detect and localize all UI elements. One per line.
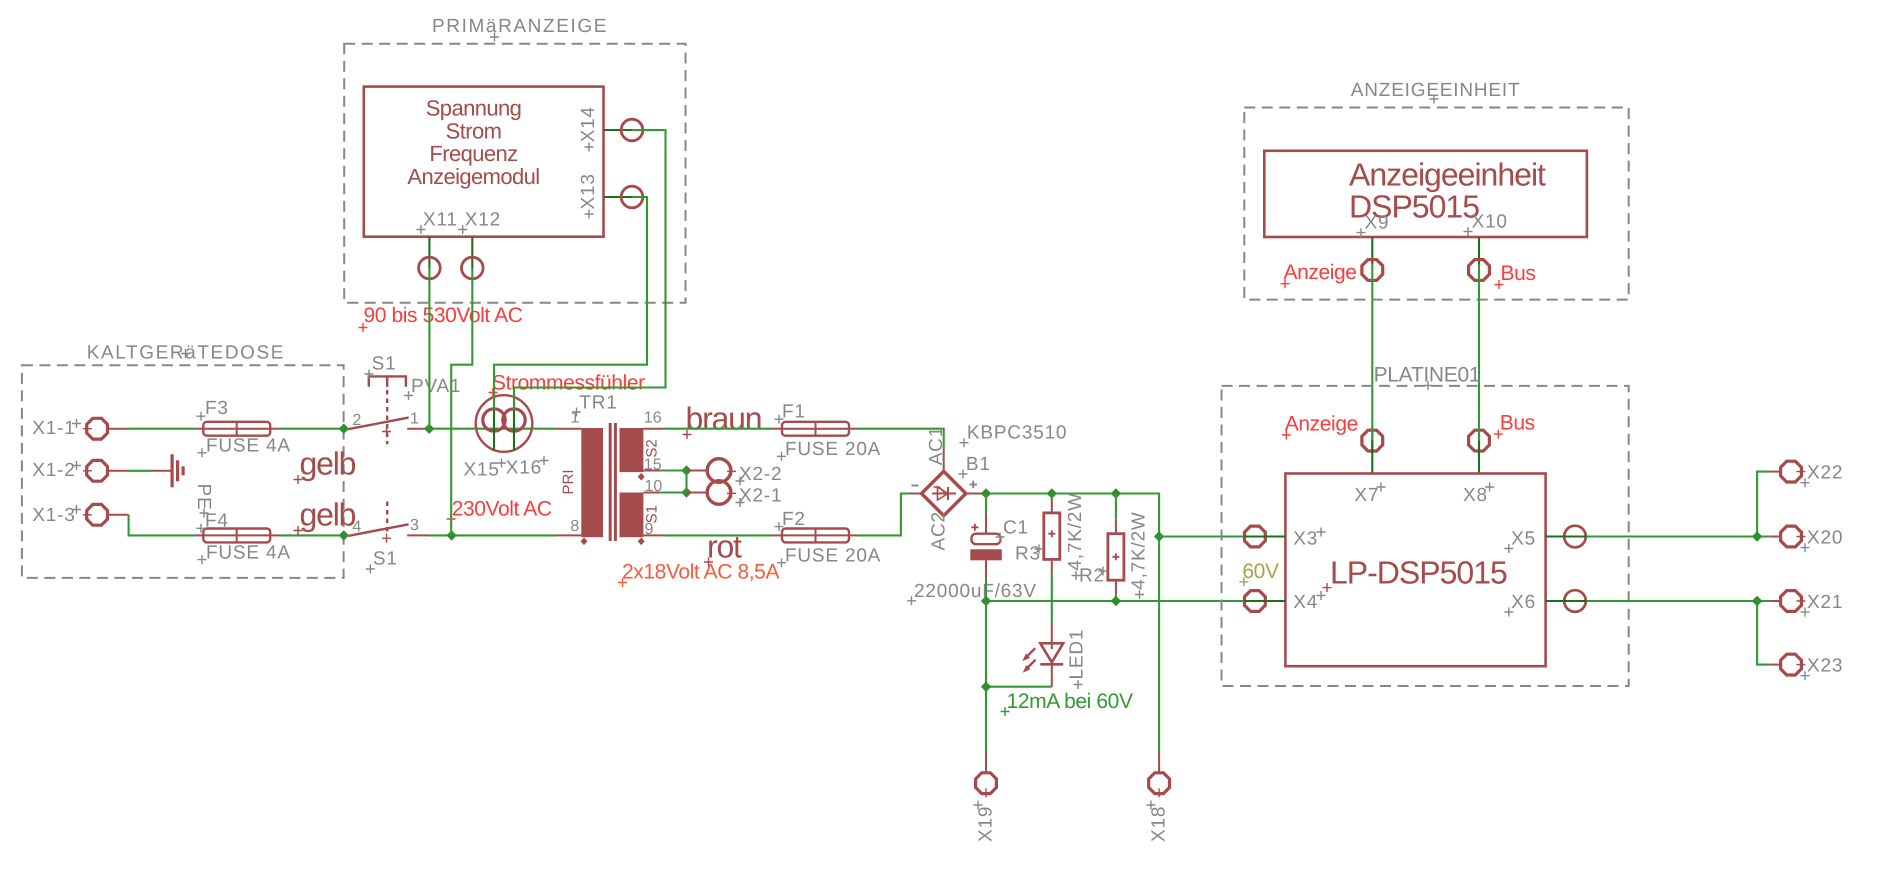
svg-text:F2: F2: [782, 509, 806, 530]
svg-text:X21: X21: [1807, 592, 1843, 613]
pad X13: [621, 186, 643, 208]
connector X1-1: [32, 418, 127, 439]
junction X19 node: [981, 682, 991, 692]
svg-text:braun: braun: [686, 401, 762, 437]
label Strommessfuehler: [489, 372, 646, 398]
pad X11: [419, 257, 441, 279]
net label rot: [704, 529, 742, 567]
pad X12: [462, 257, 484, 279]
switch S1 lower pole: [348, 502, 419, 574]
svg-text:PVA1: PVA1: [411, 376, 461, 397]
module PVA1 display box: [364, 87, 632, 268]
label PVA1: [404, 376, 461, 400]
wire R2 to gnd rail: [1115, 595, 1117, 601]
frame PRIMAERANZEIGE: [344, 16, 685, 303]
junction B1 plus: [981, 488, 991, 498]
svg-text:Anzeigemodul: Anzeigemodul: [407, 164, 539, 189]
pad X14: [621, 119, 643, 141]
connector X2-1: [707, 481, 782, 507]
svg-text:X4: X4: [1293, 592, 1318, 613]
svg-text:3: 3: [410, 517, 419, 534]
pad X7: [1362, 428, 1383, 453]
net label Anzeige upper: [1281, 261, 1357, 288]
wire X13 to X15: [494, 197, 647, 410]
svg-text:60V: 60V: [1242, 560, 1279, 583]
wire S1-3 to TR1 pin8: [407, 534, 556, 536]
wire X11 down: [428, 268, 430, 429]
svg-text:X3: X3: [1293, 529, 1318, 550]
junction X2-1 node: [681, 487, 691, 497]
svg-text:X1-1: X1-1: [32, 418, 75, 439]
junction node 3: [446, 530, 456, 540]
svg-text:X1-2: X1-2: [32, 460, 75, 481]
wire X12 down: [451, 268, 472, 535]
svg-text:AC2: AC2: [929, 511, 950, 550]
pad X10: [1469, 260, 1490, 281]
svg-text:S1: S1: [373, 549, 398, 570]
junction X18/X3 node: [1154, 531, 1164, 541]
wire TR1-15 to X2-2: [661, 471, 708, 493]
connector X23: [1781, 654, 1844, 680]
resistor R2: [1079, 494, 1150, 600]
net label Bus lower: [1494, 412, 1535, 439]
svg-text:Frequenz: Frequenz: [429, 141, 517, 166]
svg-text:PRIMäRANZEIGE: PRIMäRANZEIGE: [432, 16, 608, 37]
wire X5 to X20/X22: [1586, 472, 1780, 537]
svg-text:X16: X16: [506, 458, 542, 479]
net label 230Volt AC: [447, 497, 552, 523]
junction R2 gnd: [1111, 596, 1121, 606]
svg-text:Anzeige: Anzeige: [1284, 261, 1357, 284]
svg-text:S2: S2: [643, 439, 660, 457]
svg-text:gelb: gelb: [300, 497, 356, 533]
wire C1 to gnd rail: [985, 579, 987, 601]
svg-text:F4: F4: [205, 510, 229, 531]
svg-text:gelb: gelb: [300, 446, 356, 482]
connector X1-3: [32, 504, 128, 526]
svg-text:PRI: PRI: [560, 469, 577, 494]
module Anzeigeeinheit DSP5015: [1264, 151, 1587, 264]
svg-text:F3: F3: [205, 398, 229, 419]
net label gelb: [294, 497, 356, 536]
IC LP-DSP5015: [1285, 474, 1545, 667]
svg-text:10: 10: [645, 478, 663, 495]
connector X21: [1781, 591, 1844, 617]
junction R2 top: [1111, 488, 1121, 498]
ground PE: [151, 454, 214, 517]
wire LED1 to gnd/X19: [986, 601, 1052, 772]
frame ANZEIGEEINHEIT: [1244, 80, 1628, 300]
net label braun: [683, 401, 762, 440]
svg-text:FUSE 4A: FUSE 4A: [206, 436, 291, 457]
wire X14 to X16: [514, 130, 666, 410]
svg-text:X8: X8: [1463, 485, 1488, 506]
LED LED1: [1022, 622, 1087, 689]
svg-text:KBPC3510: KBPC3510: [967, 423, 1067, 444]
svg-text:X5: X5: [1511, 529, 1536, 550]
svg-text:Strom: Strom: [446, 118, 502, 143]
svg-text:FUSE 4A: FUSE 4A: [206, 542, 291, 563]
net label gelb: [294, 446, 356, 485]
wire S1-1 to TR1 pin1: [407, 428, 556, 430]
svg-text:90 bis 530Volt AC: 90 bis 530Volt AC: [364, 304, 523, 327]
resistor R3: [1015, 492, 1086, 580]
svg-text:B1: B1: [966, 454, 991, 475]
wire TR1-10 to X2-1: [661, 491, 708, 493]
pad X6: [1546, 590, 1587, 612]
wire TR1-16 to F1: [664, 428, 772, 430]
junction node 2: [339, 424, 349, 434]
labels X15 X16: [464, 456, 549, 481]
wire X1-1 to F3: [128, 428, 195, 430]
label 60V: [1239, 560, 1279, 587]
svg-text:R3: R3: [1015, 544, 1041, 565]
svg-text:X23: X23: [1807, 656, 1843, 677]
svg-text:4,7K/2W: 4,7K/2W: [1129, 511, 1150, 589]
pad X4: [1244, 591, 1285, 612]
svg-text:F1: F1: [782, 402, 806, 423]
svg-text:X6: X6: [1511, 592, 1536, 613]
pad X5: [1546, 526, 1587, 548]
switch S1 upper pole: [348, 354, 419, 445]
svg-text:rot: rot: [707, 529, 742, 565]
svg-text:X20: X20: [1807, 528, 1843, 549]
svg-text:X14: X14: [578, 106, 599, 142]
wire F3 to S1: [279, 428, 348, 430]
svg-text:1: 1: [571, 410, 580, 427]
pad X3: [1244, 526, 1285, 547]
capacitor C1: [907, 494, 1037, 606]
wire X1-3 to F4: [129, 515, 195, 536]
svg-text:8: 8: [570, 518, 579, 535]
svg-text:ANZEIGEEINHEIT: ANZEIGEEINHEIT: [1351, 80, 1521, 101]
svg-text:C1: C1: [1003, 518, 1029, 539]
label PLATINE01: [1374, 364, 1481, 391]
svg-text:TR1: TR1: [579, 392, 617, 413]
svg-text:X22: X22: [1807, 463, 1843, 484]
svg-text:X2-2: X2-2: [739, 464, 782, 485]
net label 2x18Volt AC 8,5A: [618, 560, 779, 587]
svg-text:Anzeigeeinheit: Anzeigeeinheit: [1349, 156, 1546, 192]
svg-text:AC1: AC1: [926, 426, 947, 465]
junction C1 gnd: [981, 596, 991, 606]
svg-text:16: 16: [644, 410, 662, 427]
svg-text:X9: X9: [1365, 213, 1390, 234]
svg-text:FUSE 20A: FUSE 20A: [785, 545, 881, 566]
wire X6 to X21/X23: [1586, 601, 1780, 665]
junction X21 node: [1752, 596, 1762, 606]
svg-text:LP-DSP5015: LP-DSP5015: [1330, 555, 1507, 591]
svg-text:15: 15: [644, 457, 662, 474]
connector X22: [1781, 461, 1844, 487]
svg-text:X1-3: X1-3: [32, 505, 75, 526]
wire +60V rail: [986, 494, 1159, 752]
svg-text:S1: S1: [643, 505, 660, 523]
junction R3 top: [1047, 488, 1057, 498]
svg-text:R2: R2: [1079, 566, 1105, 587]
wire R3 to LED1: [1051, 574, 1053, 622]
wire X18 stub: [1158, 751, 1160, 772]
bridge rectifier B1: [912, 423, 1068, 551]
pad X8: [1469, 428, 1490, 453]
svg-text:X12: X12: [465, 210, 501, 231]
wire X9 to X7: [1371, 264, 1373, 441]
svg-text:4,7K/2W: 4,7K/2W: [1065, 492, 1086, 570]
svg-text:Anzeige: Anzeige: [1285, 413, 1358, 436]
wire F4 to S1: [279, 534, 348, 536]
connector X18: [1147, 773, 1170, 842]
junction node 1: [424, 424, 434, 434]
svg-text:12mA bei 60V: 12mA bei 60V: [1007, 690, 1133, 713]
net label Bus upper: [1495, 262, 1536, 289]
fuse F4: [195, 510, 291, 564]
connector X20: [1781, 526, 1844, 552]
svg-text:4: 4: [352, 518, 361, 535]
svg-text:FUSE 20A: FUSE 20A: [785, 439, 881, 460]
wire X10 to X8: [1478, 264, 1480, 441]
net label 90 bis 530Volt AC: [359, 304, 523, 332]
wire F1 to B1 AC1: [858, 429, 944, 451]
svg-text:X19: X19: [976, 806, 997, 842]
svg-text:Bus: Bus: [1501, 262, 1536, 285]
svg-text:X18: X18: [1149, 806, 1170, 842]
net label 12mA bei 60V: [1001, 690, 1133, 716]
frame KALTGERAETEDOSE: [22, 343, 344, 578]
svg-text:PLATINE01: PLATINE01: [1374, 364, 1481, 387]
svg-text:X15: X15: [464, 460, 500, 481]
svg-text:1: 1: [410, 410, 419, 427]
wire F2 to B1 AC2: [858, 494, 921, 536]
svg-text:22000uF/63V: 22000uF/63V: [914, 581, 1037, 602]
svg-text:2: 2: [352, 412, 361, 429]
svg-text:S1: S1: [372, 354, 397, 375]
svg-text:PE: PE: [193, 484, 214, 511]
pin stubs X7 X8: [1372, 441, 1479, 474]
svg-text:X13: X13: [578, 173, 599, 209]
junction X2-2 node: [681, 465, 691, 475]
svg-text:X2-1: X2-1: [739, 486, 782, 507]
transformer TR1: [557, 392, 664, 545]
current sensor circles: [476, 395, 533, 452]
connector X2-2: [707, 459, 782, 486]
svg-text:2x18Volt AC 8,5A: 2x18Volt AC 8,5A: [622, 560, 779, 583]
frame PLATINE01: [1222, 386, 1629, 686]
svg-text:X7: X7: [1354, 485, 1379, 506]
connector X19: [974, 773, 997, 842]
svg-text:Bus: Bus: [1500, 412, 1535, 435]
connector X1-2: [32, 460, 127, 481]
svg-text:LED1: LED1: [1067, 629, 1088, 680]
svg-text:Spannung: Spannung: [426, 96, 522, 121]
fuse F1: [772, 402, 882, 461]
fuse F3: [195, 398, 291, 457]
junction X20 node: [1752, 531, 1762, 541]
wire gnd rail to X4: [986, 600, 1245, 602]
wire X1-2 to PE: [128, 470, 152, 472]
svg-text:230Volt AC: 230Volt AC: [452, 497, 552, 520]
fuse F2: [772, 509, 882, 567]
pad X9: [1362, 260, 1383, 281]
junction node 4: [339, 530, 349, 540]
wire TR1-9 to F2: [664, 534, 772, 536]
wire +60V to X3: [1159, 535, 1245, 537]
svg-text:X10: X10: [1472, 212, 1508, 233]
svg-text:X11: X11: [423, 210, 458, 231]
net label Anzeige lower: [1282, 413, 1358, 440]
